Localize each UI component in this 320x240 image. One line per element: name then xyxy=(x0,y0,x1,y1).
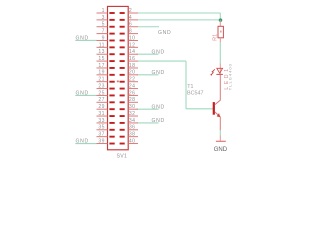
svg-text:38: 38 xyxy=(129,132,136,138)
svg-text:26: 26 xyxy=(129,90,136,96)
svg-text:27: 27 xyxy=(98,97,105,103)
svg-text:16: 16 xyxy=(129,56,136,62)
svg-text:23: 23 xyxy=(98,83,105,89)
svg-text:11: 11 xyxy=(99,42,105,48)
svg-text:29: 29 xyxy=(98,104,105,110)
svg-text:GND: GND xyxy=(152,118,165,124)
svg-text:20: 20 xyxy=(129,70,136,76)
svg-text:22: 22 xyxy=(129,77,136,83)
svg-text:6: 6 xyxy=(129,22,132,28)
svg-text:25: 25 xyxy=(98,90,105,96)
svg-text:8: 8 xyxy=(129,29,132,35)
svg-text:40: 40 xyxy=(129,138,136,144)
svg-text:1: 1 xyxy=(102,8,105,14)
svg-text:36: 36 xyxy=(129,125,136,131)
svg-text:32: 32 xyxy=(129,111,136,117)
svg-text:GND: GND xyxy=(76,90,89,96)
svg-text:GND: GND xyxy=(76,139,89,145)
svg-text:SV1: SV1 xyxy=(117,153,128,159)
svg-text:T1: T1 xyxy=(187,84,193,90)
svg-text:GND: GND xyxy=(214,146,228,153)
svg-text:GND: GND xyxy=(152,70,165,76)
svg-text:33: 33 xyxy=(98,118,105,124)
svg-text:28: 28 xyxy=(129,97,136,103)
svg-text:39: 39 xyxy=(98,138,105,144)
svg-text:37: 37 xyxy=(98,132,105,138)
svg-text:19: 19 xyxy=(98,70,105,76)
svg-text:13: 13 xyxy=(98,49,105,55)
svg-text:GND: GND xyxy=(152,49,165,55)
svg-text:14: 14 xyxy=(129,49,136,55)
svg-text:GND: GND xyxy=(152,104,165,110)
svg-text:9: 9 xyxy=(102,35,105,41)
svg-text:24: 24 xyxy=(129,83,136,89)
svg-text:18: 18 xyxy=(129,63,136,69)
svg-text:35: 35 xyxy=(98,125,105,131)
svg-text:15: 15 xyxy=(98,56,105,62)
svg-text:7: 7 xyxy=(102,29,105,35)
svg-text:R1: R1 xyxy=(213,34,219,41)
svg-text:21: 21 xyxy=(98,77,105,83)
svg-text:31: 31 xyxy=(98,111,105,117)
svg-text:17: 17 xyxy=(98,63,105,69)
svg-text:30: 30 xyxy=(129,104,136,110)
svg-text:2: 2 xyxy=(129,8,132,14)
svg-text:GND: GND xyxy=(158,30,171,36)
svg-text:4: 4 xyxy=(129,15,132,21)
svg-text:5: 5 xyxy=(102,22,105,28)
svg-text:34: 34 xyxy=(129,118,136,124)
svg-text:12: 12 xyxy=(129,42,136,48)
svg-text:BC547: BC547 xyxy=(187,91,203,97)
svg-text:GND: GND xyxy=(76,35,89,41)
svg-text:TLLG4400: TLLG4400 xyxy=(227,63,232,90)
svg-text:10: 10 xyxy=(129,35,136,41)
svg-text:3: 3 xyxy=(102,15,105,21)
